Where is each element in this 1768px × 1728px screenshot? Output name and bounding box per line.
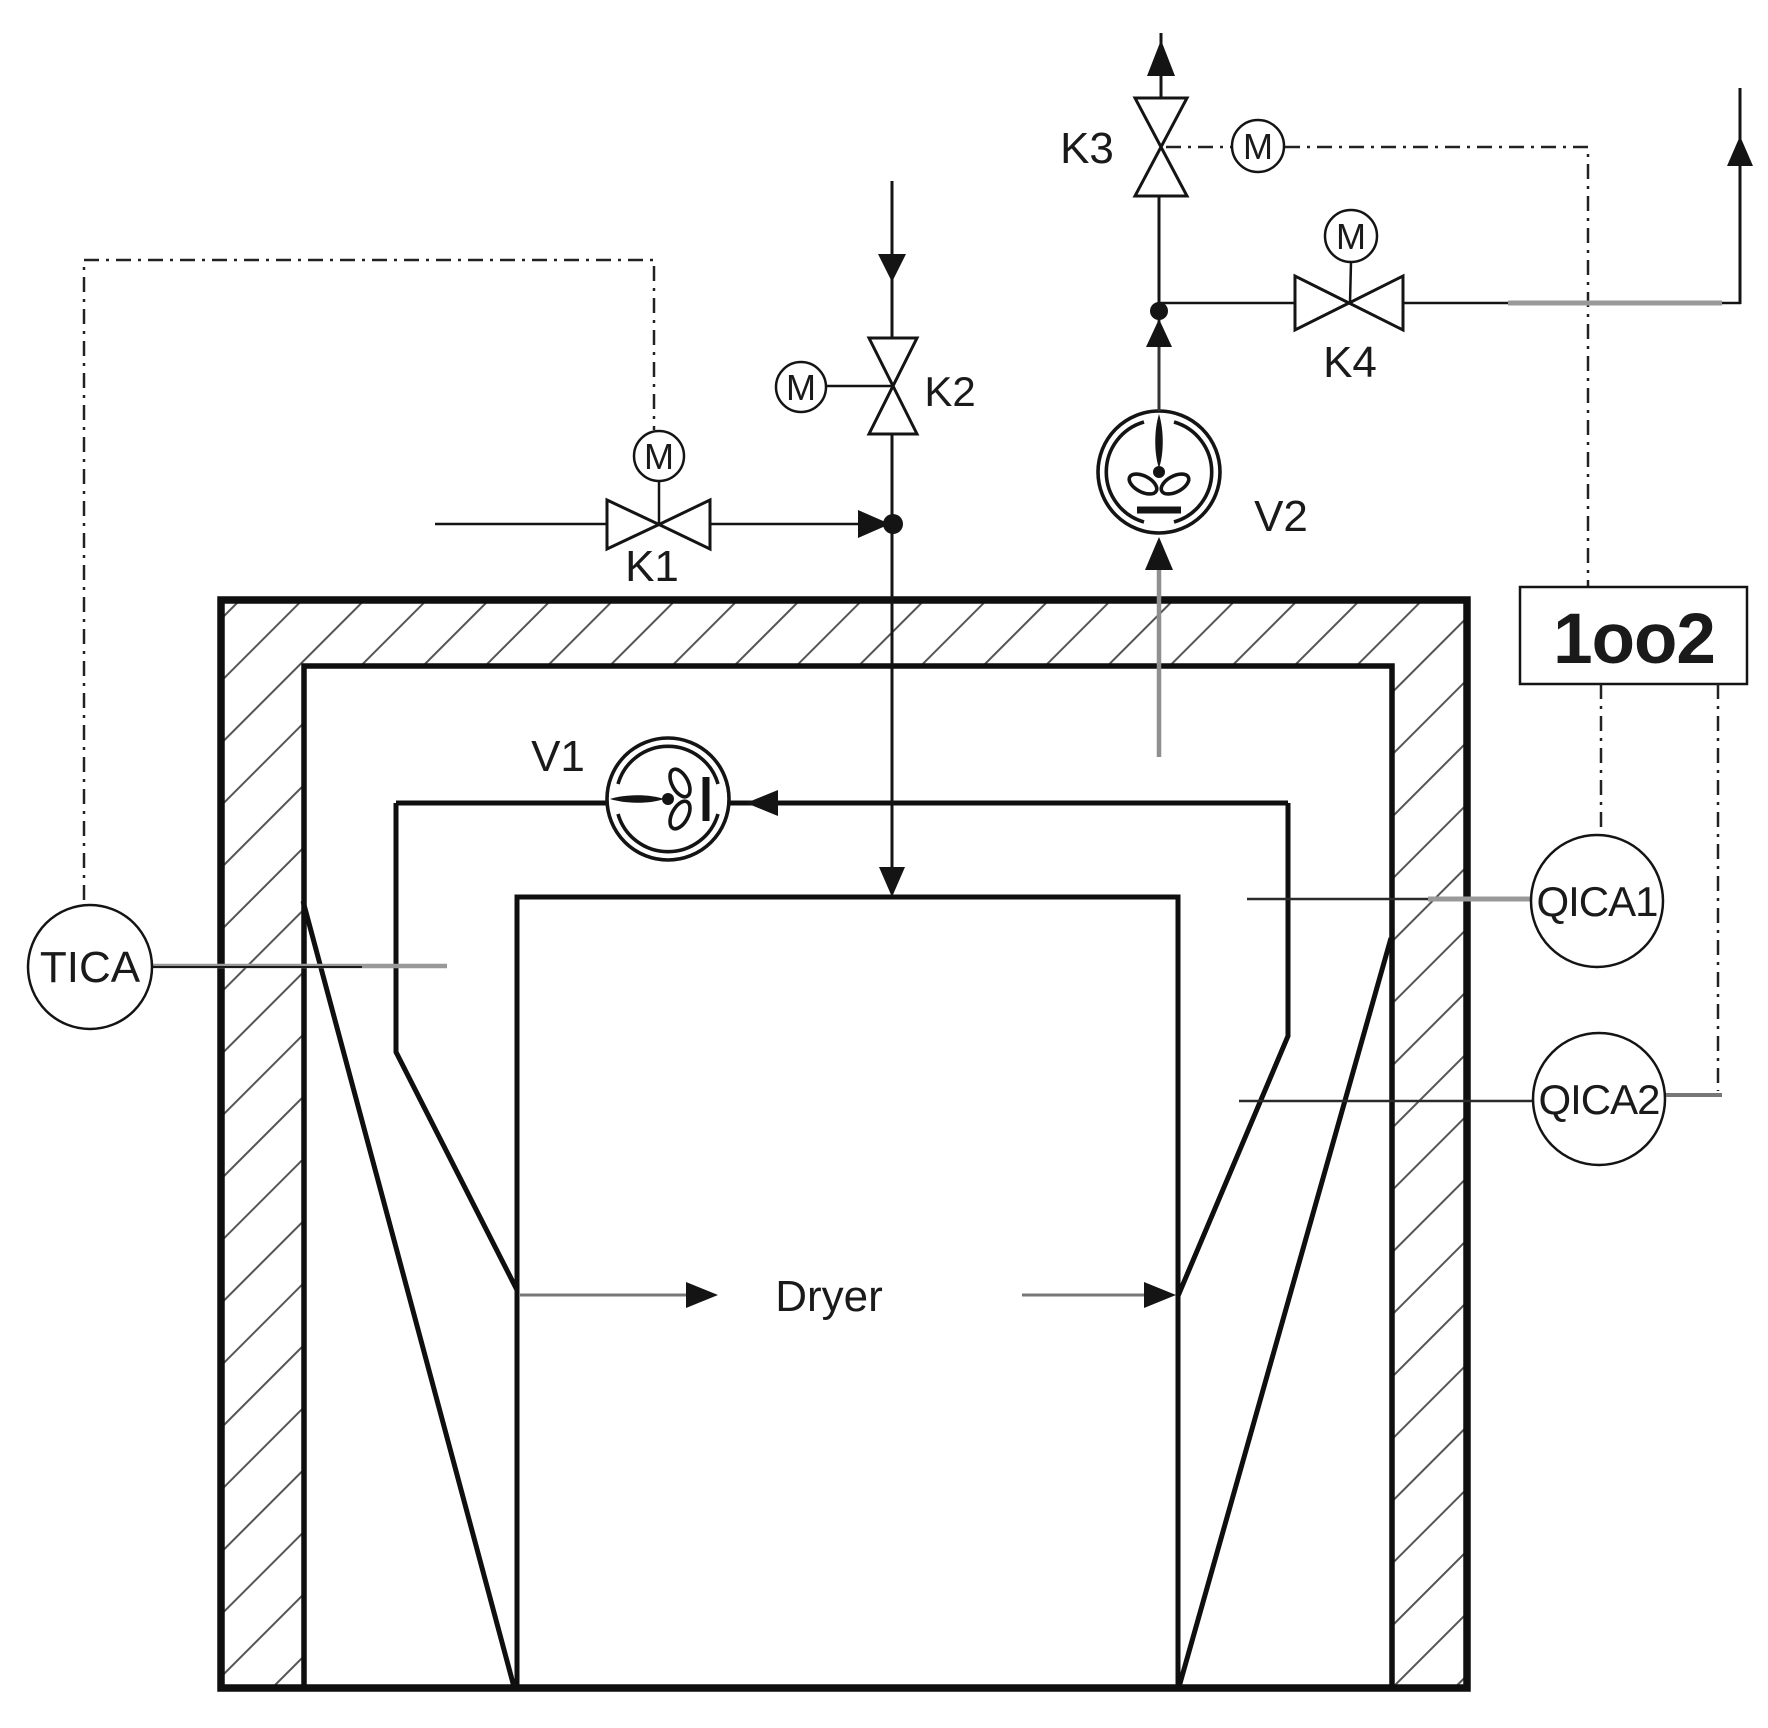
wire junction to valve K3 (1158, 196, 1161, 303)
instrument line TICA black (152, 966, 362, 968)
fan V2 (1098, 411, 1220, 533)
svg-text:M: M (786, 367, 816, 408)
dryer inlet arrow right head (1144, 1282, 1176, 1308)
junction node above V2 (1150, 302, 1168, 320)
motor actuator M of K2 (776, 362, 826, 412)
valve K1 (607, 500, 710, 549)
svg-text:1oo2: 1oo2 (1553, 600, 1715, 679)
instrument line QICA1 gray (1428, 897, 1532, 902)
wire V2 discharge to junction (1158, 311, 1161, 411)
pipe K4 to riser black (1402, 302, 1741, 305)
signal line K3 to M dash-dot (1166, 146, 1231, 149)
dryer box (517, 897, 1178, 1688)
arrow into fan V2 (1145, 537, 1173, 570)
instrument line QICA2 (1239, 1100, 1534, 1103)
instrument TICA (28, 905, 152, 1029)
svg-text:Dryer: Dryer (775, 1272, 883, 1321)
valve K2 (869, 338, 917, 434)
dryer enclosure inner wall (304, 666, 1392, 1688)
motor actuator stem K2 (826, 385, 892, 388)
dryer inlet arrow right shaft (1022, 1294, 1148, 1297)
svg-text:M: M (1243, 126, 1273, 167)
dryer inlet arrow left head (686, 1282, 718, 1308)
svg-text:TICA: TICA (40, 943, 141, 992)
wire K1 inlet pipe (435, 523, 880, 526)
arrow at K1 junction (858, 510, 890, 538)
fan V1 (607, 738, 729, 860)
signal line TICA to K1 actuator (84, 260, 654, 900)
connector QICA2 to signal line (1666, 1093, 1722, 1097)
arrow down on K2 feed (878, 254, 906, 282)
arrow into dryer box top (879, 867, 905, 897)
svg-text:K1: K1 (625, 542, 679, 591)
motor actuator stem K4 (1350, 262, 1351, 303)
instrument QICA2 (1533, 1033, 1665, 1165)
signal line 1oo2 to QICA2 (1717, 684, 1720, 1091)
motor actuator M of K4 (1325, 210, 1377, 262)
pipe junction to K4 (1159, 302, 1296, 305)
dryer enclosure hatched wall band (222, 601, 1466, 1687)
svg-text:V2: V2 (1254, 492, 1308, 541)
dryer inlet arrow left shaft (520, 1294, 692, 1297)
svg-text:K2: K2 (924, 368, 975, 415)
recirculation duct top left run (396, 801, 607, 806)
right inclined baffle wall (1179, 938, 1391, 1687)
svg-text:QICA2: QICA2 (1538, 1076, 1659, 1123)
junction node K1/K2 (883, 514, 903, 534)
logic box 1oo2 (1520, 587, 1747, 684)
pipe K4 gray overlay (1508, 301, 1722, 306)
svg-text:M: M (1336, 216, 1366, 257)
signal line M of K3 to 1oo2 (1285, 147, 1588, 586)
recirculation duct left leg (396, 803, 517, 1290)
motor actuator M of K3 (1232, 120, 1284, 172)
wire K2 feed pipe upper (891, 181, 894, 340)
motor actuator M of K1 (634, 431, 684, 481)
arrow up to junction (1146, 319, 1172, 347)
svg-text:M: M (644, 436, 674, 477)
instrument line QICA1 black (1247, 898, 1440, 901)
instrument line TICA gray (152, 964, 447, 969)
svg-text:V1: V1 (531, 732, 585, 781)
exhaust riser right (1739, 88, 1742, 304)
recirculation duct right leg (1178, 803, 1288, 1296)
svg-text:K4: K4 (1323, 338, 1377, 387)
signal line 1oo2 to QICA1 (1600, 684, 1603, 834)
arrow up exhaust K3 (1147, 40, 1175, 76)
dryer enclosure outer border (221, 600, 1467, 1688)
left inclined baffle wall (303, 901, 514, 1687)
motor actuator stem K1 (658, 481, 661, 524)
svg-text:K3: K3 (1060, 124, 1114, 173)
valve K3 (1135, 98, 1187, 196)
svg-text:QICA1: QICA1 (1536, 878, 1657, 925)
wire K3 outlet stack (1160, 33, 1163, 98)
wire V2 suction from dryer chamber (1157, 560, 1162, 757)
arrow into fan V1 (746, 790, 778, 816)
recirculation duct top right run (730, 801, 1288, 806)
valve K4 (1295, 276, 1403, 330)
instrument QICA1 (1531, 835, 1663, 967)
wire K2 pipe lower into dryer (891, 432, 894, 892)
arrow up exhaust right (1727, 136, 1753, 166)
